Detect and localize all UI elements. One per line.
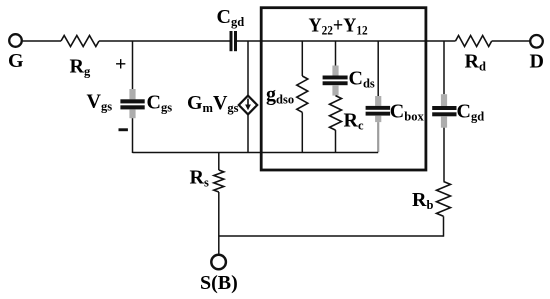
- svg-text:Y22+Y12: Y22+Y12: [309, 15, 368, 38]
- resistor Rb: [437, 182, 451, 217]
- resistor Rg: [61, 36, 99, 47]
- wire drain top node down to GmVgs source: [247, 41, 249, 96]
- svg-text:S(B): S(B): [200, 272, 238, 294]
- wire drain node down to Cgd right: [443, 41, 445, 94]
- svg-text:Rc: Rc: [344, 109, 364, 132]
- svg-text:gdso: gdso: [266, 84, 294, 107]
- svg-text:Rd: Rd: [465, 50, 486, 73]
- current source GmVgs (diamond): [239, 96, 257, 115]
- svg-text:D: D: [530, 51, 544, 73]
- svg-text:Cgs: Cgs: [147, 92, 173, 115]
- wire top to Cbox: [377, 41, 379, 96]
- wire Cgd to drain node: [237, 40, 456, 42]
- svg-text:+: +: [115, 54, 126, 76]
- capacitor Cgd right: [432, 94, 456, 128]
- capacitor Cbox: [366, 96, 391, 152]
- label - (Vgs polarity): [119, 128, 128, 131]
- wire top to Cds: [335, 41, 337, 66]
- resistor Rc: [330, 96, 342, 131]
- resistor Rs: [214, 170, 224, 192]
- wire Rs to S(B) terminal: [218, 192, 220, 255]
- wire G to Rg: [23, 40, 61, 42]
- wire Rc to bottom rail: [335, 130, 337, 153]
- capacitor Cgd top: [230, 31, 238, 51]
- svg-text:Cgd: Cgd: [457, 100, 485, 123]
- wire Cgd right to Rb: [443, 128, 445, 182]
- terminal G: [9, 34, 22, 47]
- svg-text:Cds: Cds: [349, 68, 375, 91]
- terminal S(B): [211, 255, 226, 270]
- resistor gdso: [297, 76, 308, 112]
- svg-text:Vgs: Vgs: [87, 91, 113, 114]
- wire gdso to bottom rail: [301, 112, 303, 153]
- wire Rd to D terminal: [492, 40, 531, 42]
- svg-text:Cbox: Cbox: [390, 101, 425, 124]
- wire top to gdso: [301, 41, 303, 76]
- wire gate node down to Cgs: [132, 41, 134, 89]
- svg-text:Rg: Rg: [70, 56, 91, 79]
- capacitor Cds: [323, 66, 348, 96]
- svg-text:Rs: Rs: [190, 167, 209, 190]
- wire GmVgs to bottom rail: [247, 114, 249, 153]
- resistor Rd: [456, 36, 492, 47]
- capacitor Cgs: [120, 89, 144, 118]
- bottom wire S node to Rb: [219, 235, 444, 237]
- wire Rb to bottom wire: [443, 216, 445, 236]
- box Y22+Y12: [261, 8, 426, 170]
- wire Cgs down to bottom rail: [132, 118, 134, 153]
- wire Rg to Cgd top: [99, 40, 230, 42]
- svg-text:G: G: [8, 50, 24, 72]
- svg-text:Cgd: Cgd: [217, 6, 245, 29]
- svg-text:GmVgs: GmVgs: [187, 92, 239, 115]
- bottom rail wire: [133, 152, 379, 154]
- terminal D: [530, 35, 543, 48]
- wire rail to Rs: [218, 153, 220, 171]
- svg-text:Rb: Rb: [412, 189, 433, 212]
